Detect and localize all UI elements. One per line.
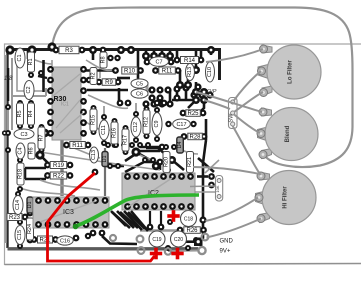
pad GND <box>186 238 203 247</box>
svg-text:Lo Filter: Lo Filter <box>288 60 294 84</box>
capacitor C4 <box>16 143 25 159</box>
capacitor C18 <box>181 211 197 227</box>
resistor R23 <box>7 214 22 222</box>
wire board to trimmer <box>190 185 215 188</box>
pad field <box>2 42 215 251</box>
polarity mark + <box>167 210 179 222</box>
resistor R26 <box>184 227 201 234</box>
polarity mark + <box>150 248 162 260</box>
resistor R28 <box>188 133 203 140</box>
svg-text:R17: R17 <box>123 135 129 145</box>
resistor R5 <box>17 103 24 125</box>
svg-text:R15: R15 <box>91 115 97 125</box>
svg-text:1/8: 1/8 <box>4 76 13 82</box>
resistor R21 <box>187 152 194 173</box>
svg-text:R10: R10 <box>124 69 136 75</box>
resistor R2 <box>90 68 97 85</box>
svg-text:R11: R11 <box>162 69 173 75</box>
svg-text:C14: C14 <box>15 200 21 210</box>
svg-text:GND: GND <box>220 239 234 245</box>
wire SW mid to Blend lug2 <box>234 114 261 133</box>
resistor R12 <box>143 110 150 134</box>
capacitor C10 <box>206 62 215 82</box>
svg-text:R3: R3 <box>65 48 73 54</box>
svg-text:D4: D4 <box>177 141 183 148</box>
svg-text:D1: D1 <box>102 155 108 162</box>
trimmer 10K <box>215 176 223 202</box>
resistor R14 <box>181 57 199 65</box>
capacitor C7 <box>150 57 169 67</box>
svg-text:R24: R24 <box>27 224 33 234</box>
extra pads <box>17 47 215 192</box>
polarity mark + <box>171 248 183 260</box>
svg-text:R7: R7 <box>39 134 45 141</box>
wire big arc <box>52 8 353 168</box>
svg-text:R5: R5 <box>17 110 23 117</box>
capacitor C6 <box>131 89 148 98</box>
svg-text:R28: R28 <box>189 135 201 141</box>
svg-text:R23: R23 <box>9 215 21 221</box>
svg-text:R18: R18 <box>18 169 24 179</box>
svg-text:O/P: O/P <box>207 89 217 95</box>
svg-text:IC3: IC3 <box>63 209 74 216</box>
svg-text:R12: R12 <box>144 117 150 127</box>
resistor R11 <box>70 142 86 150</box>
resistor R7 <box>38 127 45 149</box>
svg-text:R25: R25 <box>187 111 199 117</box>
wire board O/P to Blend lug1 <box>196 92 262 112</box>
resistor R22 <box>50 172 66 180</box>
wire Hi lug1 to board <box>193 167 260 174</box>
resistor R9 <box>102 79 116 86</box>
op-amp IC2 <box>122 173 195 210</box>
svg-text:R21: R21 <box>187 157 193 167</box>
svg-text:R11: R11 <box>72 143 83 149</box>
wire Hi lug3 to board <box>207 219 262 238</box>
svg-text:R22: R22 <box>53 174 65 180</box>
svg-text:C13: C13 <box>91 150 97 160</box>
svg-text:C4: C4 <box>18 147 24 154</box>
switch SW <box>229 98 238 129</box>
figure frame <box>5 44 361 265</box>
svg-text:D1: D1 <box>27 201 33 208</box>
capacitor C17 <box>173 119 191 129</box>
capacitor C9 <box>152 113 162 136</box>
svg-text:C5: C5 <box>136 82 143 88</box>
resistor R1 <box>28 52 35 72</box>
resistor R16 <box>111 122 118 144</box>
capacitor C1 <box>15 48 25 68</box>
wire lug Lo2 to SW <box>234 71 262 101</box>
wire lug Lo1 to board <box>206 49 263 62</box>
svg-text:C3: C3 <box>20 132 27 138</box>
diode D1 <box>27 197 33 213</box>
svg-text:R1: R1 <box>28 58 34 65</box>
svg-text:C9: C9 <box>154 120 160 127</box>
capacitor R13 <box>186 64 195 81</box>
svg-text:Hi Filter: Hi Filter <box>283 186 289 209</box>
capacitor C14 <box>13 196 23 215</box>
diode D4 <box>177 137 184 153</box>
resistor R8 <box>100 52 107 68</box>
resistor R4 <box>28 103 35 125</box>
svg-text:R21: R21 <box>39 238 51 244</box>
resistor R17 <box>122 129 129 151</box>
svg-text:C2: C2 <box>26 86 32 93</box>
wire SW bot to Hi lug1 <box>233 126 261 175</box>
resistor R6 <box>28 143 35 159</box>
pot Lo Filter <box>258 45 322 99</box>
svg-text:R13: R13 <box>187 67 193 77</box>
svg-text:R26: R26 <box>186 228 198 234</box>
pot Hi Filter <box>255 171 316 225</box>
svg-text:C15: C15 <box>17 230 23 240</box>
resistor R20 <box>163 152 170 173</box>
resistor R10 <box>122 67 138 75</box>
capacitor C3 <box>14 129 34 139</box>
svg-text:C18: C18 <box>184 216 193 222</box>
capacitor C16 <box>57 236 73 245</box>
capacitor C2 <box>24 81 34 100</box>
svg-text:C7: C7 <box>155 60 162 66</box>
resistor R21 <box>38 236 53 244</box>
extra traces <box>42 71 206 232</box>
svg-text:Blend: Blend <box>285 125 291 142</box>
svg-text:R9: R9 <box>105 80 113 86</box>
wire red 9V <box>48 173 155 261</box>
svg-text:R16: R16 <box>112 128 118 138</box>
pot Blend <box>257 108 318 161</box>
resistor R25 <box>186 110 201 117</box>
svg-text:R19: R19 <box>53 163 65 169</box>
svg-text:C6: C6 <box>136 92 143 98</box>
svg-text:C11: C11 <box>101 125 107 135</box>
gray pcb traces <box>6 55 219 251</box>
capacitor C12 <box>131 117 141 137</box>
svg-text:R4: R4 <box>28 110 34 117</box>
svg-text:C10: C10 <box>207 67 213 77</box>
svg-text:C19: C19 <box>152 237 161 243</box>
capacitor C15 <box>15 226 25 245</box>
svg-text:C17: C17 <box>176 122 186 128</box>
capacitor C13 <box>90 147 99 163</box>
svg-text:R20: R20 <box>164 157 170 167</box>
resistor R15 <box>90 109 97 131</box>
svg-text:R6: R6 <box>29 147 35 154</box>
svg-text:IC1: IC1 <box>61 102 69 108</box>
wire green signal <box>73 195 199 229</box>
capacitor C5 <box>131 79 148 88</box>
resistor R24 <box>27 218 34 240</box>
diode D1 <box>102 152 108 167</box>
op-amp IC3 <box>33 197 109 228</box>
wire lug Lo3 to SW mid <box>234 92 263 112</box>
wire board to SW top <box>204 100 230 109</box>
svg-text:C1: C1 <box>17 54 23 61</box>
resistor R19 <box>50 162 66 170</box>
extra gray traces <box>12 58 198 196</box>
capacitor C20 <box>171 231 187 247</box>
board <box>8 49 220 249</box>
resistor R11 <box>159 67 176 75</box>
op-amp IC1 <box>38 60 87 140</box>
resistor R3 <box>59 46 79 54</box>
svg-text:C16: C16 <box>60 239 70 245</box>
svg-text:R8: R8 <box>101 56 107 63</box>
thick pcb traces <box>8 51 214 244</box>
capacitor C11 <box>99 120 109 140</box>
capacitor C19 <box>149 231 165 247</box>
svg-text:10K: 10K <box>215 185 220 192</box>
svg-text:C20: C20 <box>174 237 183 243</box>
svg-text:R2: R2 <box>91 72 97 79</box>
wire Hi lug2 to board <box>206 198 259 222</box>
gray pads <box>101 211 208 255</box>
svg-text:9V+: 9V+ <box>220 249 231 255</box>
svg-text:C12: C12 <box>133 122 139 132</box>
resistor R18 <box>17 163 24 185</box>
